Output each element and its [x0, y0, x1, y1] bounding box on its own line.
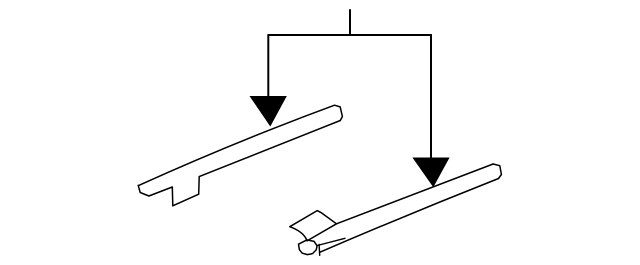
part: left molding strip outline	[138, 105, 342, 206]
leader left branch wire	[267, 35, 269, 97]
part: right molding bent flap tab	[290, 211, 337, 241]
part: right molding strip right bevel tip	[493, 164, 501, 179]
arrowhead right (solid)	[412, 158, 449, 188]
leader stem (top vertical line)	[349, 10, 351, 35]
part: right molding folded foot tip	[299, 240, 318, 255]
leader horizontal bar	[268, 34, 431, 36]
part: right molding strip top edge	[307, 164, 493, 241]
leader right branch wire	[430, 35, 432, 158]
part: right molding end cut mark	[318, 245, 321, 256]
arrowhead left (solid)	[250, 96, 287, 127]
part: right molding foot fold crease	[317, 238, 345, 245]
part: right molding strip bottom edge	[320, 179, 499, 253]
